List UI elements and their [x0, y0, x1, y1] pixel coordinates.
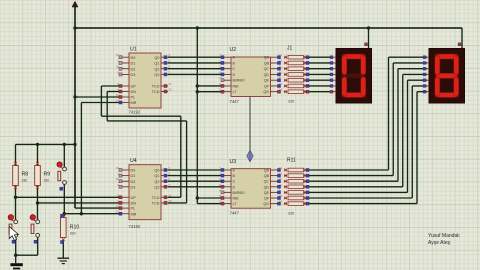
svg-text:Q3: Q3: [154, 185, 159, 189]
svg-text:D: D: [233, 185, 236, 189]
svg-text:QG: QG: [263, 202, 269, 206]
svg-text:R9: R9: [44, 171, 51, 177]
svg-text:R8: R8: [22, 171, 29, 177]
svg-text:DN: DN: [131, 202, 137, 206]
svg-text:Q3: Q3: [154, 73, 159, 77]
svg-text:RBI: RBI: [233, 197, 239, 201]
svg-text:TCU: TCU: [152, 196, 160, 200]
svg-text:QF: QF: [264, 84, 270, 88]
svg-text:QF: QF: [264, 197, 270, 201]
svg-text:Q2: Q2: [154, 67, 159, 71]
svg-text:QD: QD: [264, 73, 270, 77]
svg-text:D3: D3: [131, 185, 136, 189]
svg-text:U3: U3: [230, 159, 237, 165]
svg-text:MR: MR: [131, 101, 137, 105]
svg-text:QE: QE: [264, 191, 270, 195]
svg-text:TCU: TCU: [152, 85, 160, 89]
svg-text:QD: QD: [264, 185, 270, 189]
svg-text:330: 330: [44, 178, 50, 182]
svg-text:U2: U2: [230, 47, 237, 53]
svg-text:U1: U1: [130, 47, 137, 53]
svg-text:J1: J1: [287, 46, 293, 52]
svg-text:Ayşe Ateş: Ayşe Ateş: [428, 240, 451, 246]
svg-text:D2: D2: [131, 180, 136, 184]
svg-text:QB: QB: [264, 174, 270, 178]
svg-text:D2: D2: [131, 67, 136, 71]
svg-text:Q2: Q2: [154, 180, 159, 184]
svg-text:D: D: [233, 73, 236, 77]
svg-text:BI/RBO: BI/RBO: [233, 191, 245, 195]
svg-text:R11: R11: [287, 158, 296, 164]
svg-text:74192: 74192: [129, 224, 141, 229]
svg-text:D3: D3: [131, 73, 136, 77]
svg-text:330: 330: [288, 212, 294, 216]
svg-text:PL: PL: [131, 96, 136, 100]
svg-text:MR: MR: [131, 212, 137, 216]
svg-text:7447: 7447: [230, 99, 240, 104]
svg-text:Q1: Q1: [154, 62, 159, 66]
svg-text:QC: QC: [264, 67, 270, 71]
svg-text:QA: QA: [264, 56, 270, 60]
svg-text:D0: D0: [131, 169, 136, 173]
svg-text:TCD: TCD: [152, 202, 160, 206]
svg-text:Q0: Q0: [154, 56, 159, 60]
svg-text:R10: R10: [70, 225, 80, 231]
svg-text:QC: QC: [264, 180, 270, 184]
svg-text:PL: PL: [131, 207, 136, 211]
svg-text:D1: D1: [131, 174, 136, 178]
svg-text:7447: 7447: [230, 211, 240, 216]
svg-text:QE: QE: [264, 79, 270, 83]
svg-text:74192: 74192: [129, 110, 141, 115]
svg-text:330: 330: [22, 178, 28, 182]
svg-text:C: C: [233, 180, 236, 184]
svg-text:C: C: [233, 67, 236, 71]
svg-text:UP: UP: [131, 196, 137, 200]
svg-text:TCD: TCD: [152, 90, 160, 94]
svg-text:QB: QB: [264, 61, 270, 65]
svg-text:Q0: Q0: [154, 169, 159, 173]
svg-text:QA: QA: [264, 169, 270, 173]
svg-text:DN: DN: [131, 90, 137, 94]
svg-text:D1: D1: [131, 62, 136, 66]
svg-text:UP: UP: [131, 85, 137, 89]
svg-text:RBI: RBI: [233, 84, 239, 88]
svg-text:330: 330: [70, 231, 76, 235]
svg-text:QG: QG: [263, 90, 269, 94]
svg-text:Yusuf Mandalı: Yusuf Mandalı: [428, 233, 460, 239]
svg-text:BI/RBO: BI/RBO: [233, 79, 245, 83]
svg-text:330: 330: [288, 100, 294, 104]
svg-text:U4: U4: [130, 158, 137, 164]
svg-text:D0: D0: [131, 56, 136, 60]
svg-text:Q1: Q1: [154, 174, 159, 178]
